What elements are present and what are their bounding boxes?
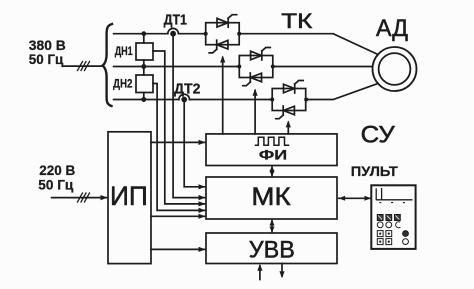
svg-text:ИП: ИП [110,181,148,211]
svg-text:ДН1: ДН1 [115,44,133,58]
svg-text:ДТ2: ДТ2 [174,80,201,97]
svg-text:50 Гц: 50 Гц [29,51,64,67]
svg-text:ДН2: ДН2 [113,77,133,91]
svg-text:СУ: СУ [361,122,396,149]
svg-text:ФИ: ФИ [259,147,287,163]
svg-text:МК: МК [251,183,291,211]
svg-text:ТК: ТК [281,9,313,33]
svg-text:ПУЛЬТ: ПУЛЬТ [351,163,398,179]
svg-text:АД: АД [376,15,408,42]
svg-text:УВВ: УВВ [249,236,295,263]
svg-text:ДТ1: ДТ1 [164,13,187,29]
svg-text:50 Гц: 50 Гц [38,176,73,192]
